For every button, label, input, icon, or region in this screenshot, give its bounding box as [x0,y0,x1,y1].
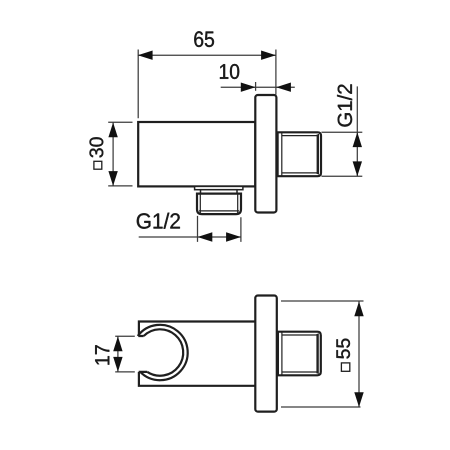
dimension G1/2 bottom label [137,213,180,229]
dimension square55 label (rotated) [341,363,349,371]
dimension square30 bottom arrow [108,171,117,186]
dimension square55 bottom arrow [354,392,363,407]
dimension square55 top arrow [354,302,363,317]
dimension square55 extension lines [281,301,364,407]
dimension square30 line [112,123,114,186]
dimension 17 top arrow [113,336,122,351]
bottom view body (holder bracket housing) [139,322,255,386]
dimension G1/2 right top arrow [353,132,362,147]
top view G1/2 outlet nut (bottom) [197,194,241,215]
bottom view inlet nut thread relief lines [282,332,318,375]
dimension 10 right arrow [276,83,291,92]
top view outlet neck [201,190,238,194]
dimension 65 line [138,54,276,56]
dimension 10 line [221,86,295,88]
handset holder ring outer arc [138,325,188,380]
holder ring opening edges [138,336,147,372]
dimension G1/2 bottom left arrow [198,232,213,241]
bottom view wall flange plate [255,296,276,412]
top view G1/2 threaded inlet nut (right) [278,132,321,176]
dimension G1/2 right bottom arrow [353,161,362,176]
dimension G1/2 bottom line [139,236,241,238]
dimension square55 line [358,302,360,408]
dimension G1/2 right extension lines [322,132,363,176]
dimension 17 bottom arrow [113,357,122,372]
dimension G1/2 right line [356,86,358,176]
dimension 10 label [220,64,239,79]
dimension G1/2 bottom right arrow [226,232,241,241]
dimension 10 left arrow [241,83,256,92]
dimension square30 extension lines [108,122,132,186]
dimension 17 label (rotated) [95,345,109,364]
top view outlet nut thread relief lines [199,194,239,214]
top view wall flange plate [255,95,276,213]
dimension 17 line [117,336,119,372]
bottom view G1/2 threaded inlet nut (right) [278,332,321,376]
top view outlet collar under body [195,186,243,189]
dimension 65 left arrow [138,51,153,60]
dimension 65 right arrow [261,51,276,60]
dimension 10 extension tick [255,82,257,91]
dimension G1/2 bottom extension lines [198,216,241,242]
dimension 65 extension lines [138,50,276,119]
dimension 65 label [194,31,214,47]
top view body (square elbow housing) [138,122,255,186]
dimension square30 label (rotated) [94,161,102,169]
dimension square30 top arrow [108,123,117,138]
handset holder ring inner arc [144,329,184,375]
dimension 17 extension lines [115,336,135,372]
dimension G1/2 right label (rotated) [337,84,352,126]
top view inlet nut thread relief lines [282,133,319,176]
